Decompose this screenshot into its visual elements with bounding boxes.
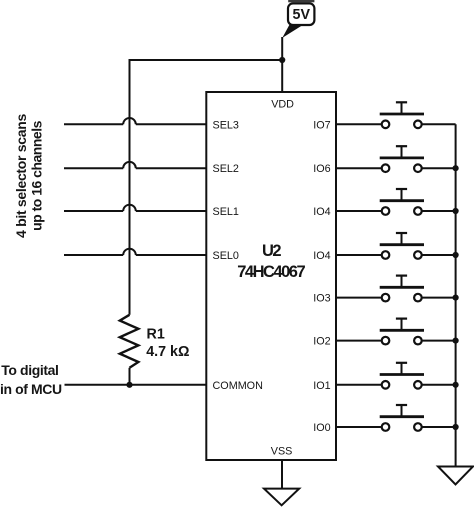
wire: 5V flag to VDD pin (vertical) bbox=[281, 37, 283, 92]
svg-text:IO3: IO3 bbox=[313, 293, 330, 305]
resistor R1 zigzag bbox=[120, 315, 139, 368]
power flag pointer wedge bbox=[282, 25, 303, 38]
ground (right rail) bbox=[438, 467, 473, 485]
wire: SEL2 with hop over bus bbox=[64, 162, 206, 168]
pushbutton SW row IO3 bbox=[336, 276, 456, 302]
wire: SEL0 with hop over bus bbox=[64, 249, 206, 255]
svg-text:in of MCU: in of MCU bbox=[0, 381, 62, 397]
power flag 5V cropped top bar bbox=[288, 0, 314, 2]
ground (VSS) bbox=[264, 489, 299, 506]
wire: resistor bottom to COMMON junction bbox=[129, 368, 131, 385]
svg-text:SEL1: SEL1 bbox=[213, 206, 239, 218]
wire: left vertical 5V bus down to resistor R1 bbox=[129, 59, 131, 315]
svg-text:SEL2: SEL2 bbox=[213, 163, 239, 175]
svg-text:IO0: IO0 bbox=[313, 422, 330, 434]
svg-text:74HC4067: 74HC4067 bbox=[237, 263, 305, 281]
node: rail dot IO4 lower bbox=[453, 252, 459, 258]
wire: right ground rail (vertical) bbox=[455, 124, 457, 466]
pushbutton SW row IO6 bbox=[336, 146, 456, 172]
svg-text:IO4: IO4 bbox=[313, 206, 330, 218]
svg-text:up to 16 channels: up to 16 channels bbox=[29, 120, 45, 230]
pushbutton SW row IO4 lower bbox=[336, 233, 456, 259]
wire: VSS to ground bbox=[281, 460, 283, 489]
svg-text:IO6: IO6 bbox=[313, 163, 330, 175]
svg-text:To digital: To digital bbox=[1, 362, 58, 378]
node: rail dot IO0 bbox=[453, 424, 459, 430]
svg-text:SEL0: SEL0 bbox=[213, 250, 239, 262]
pushbutton SW row IO2 bbox=[336, 319, 456, 345]
svg-text:IO1: IO1 bbox=[313, 380, 330, 392]
node: rail dot IO1 bbox=[453, 382, 459, 388]
svg-text:IO7: IO7 bbox=[313, 119, 330, 131]
node: rail dot IO6 bbox=[453, 165, 459, 171]
power flag 5V box bbox=[288, 3, 314, 25]
node: 5V junction dot bbox=[279, 57, 285, 63]
node: rail dot IO3 bbox=[453, 295, 459, 301]
svg-text:IO2: IO2 bbox=[313, 336, 330, 348]
svg-text:U2: U2 bbox=[262, 242, 281, 260]
pushbutton SW row IO1 bbox=[336, 363, 456, 389]
svg-text:4.7 kΩ: 4.7 kΩ bbox=[146, 344, 189, 360]
svg-text:IO4: IO4 bbox=[313, 250, 330, 262]
IC U2 74HC4067 body bbox=[206, 92, 336, 460]
pushbutton SW row IO0 bbox=[336, 405, 456, 431]
node: rail dot IO4 upper bbox=[453, 208, 459, 214]
svg-text:4 bit selector scans: 4 bit selector scans bbox=[13, 114, 29, 238]
node: COMMON junction dot bbox=[126, 382, 132, 388]
svg-text:SEL3: SEL3 bbox=[213, 119, 239, 131]
note: 4 bit selector scans up to 16 channels (rotated) bbox=[13, 114, 45, 238]
wire: SEL1 with hop over bus bbox=[64, 205, 206, 211]
pushbutton SW row IO4 upper bbox=[336, 189, 456, 215]
svg-text:VDD: VDD bbox=[271, 99, 294, 111]
svg-text:R1: R1 bbox=[147, 327, 165, 343]
wire: top horizontal 5V bus to left bus bbox=[130, 59, 283, 61]
wire: SEL3 with hop over bus bbox=[64, 118, 206, 124]
svg-text:COMMON: COMMON bbox=[213, 380, 263, 392]
svg-text:VSS: VSS bbox=[271, 445, 293, 457]
node: rail dot IO2 bbox=[453, 338, 459, 344]
pushbutton SW row IO7 bbox=[336, 102, 456, 128]
label To digital in of MCU bbox=[0, 362, 62, 397]
wire: COMMON to MCU bbox=[65, 384, 207, 386]
svg-text:5V: 5V bbox=[293, 7, 311, 23]
